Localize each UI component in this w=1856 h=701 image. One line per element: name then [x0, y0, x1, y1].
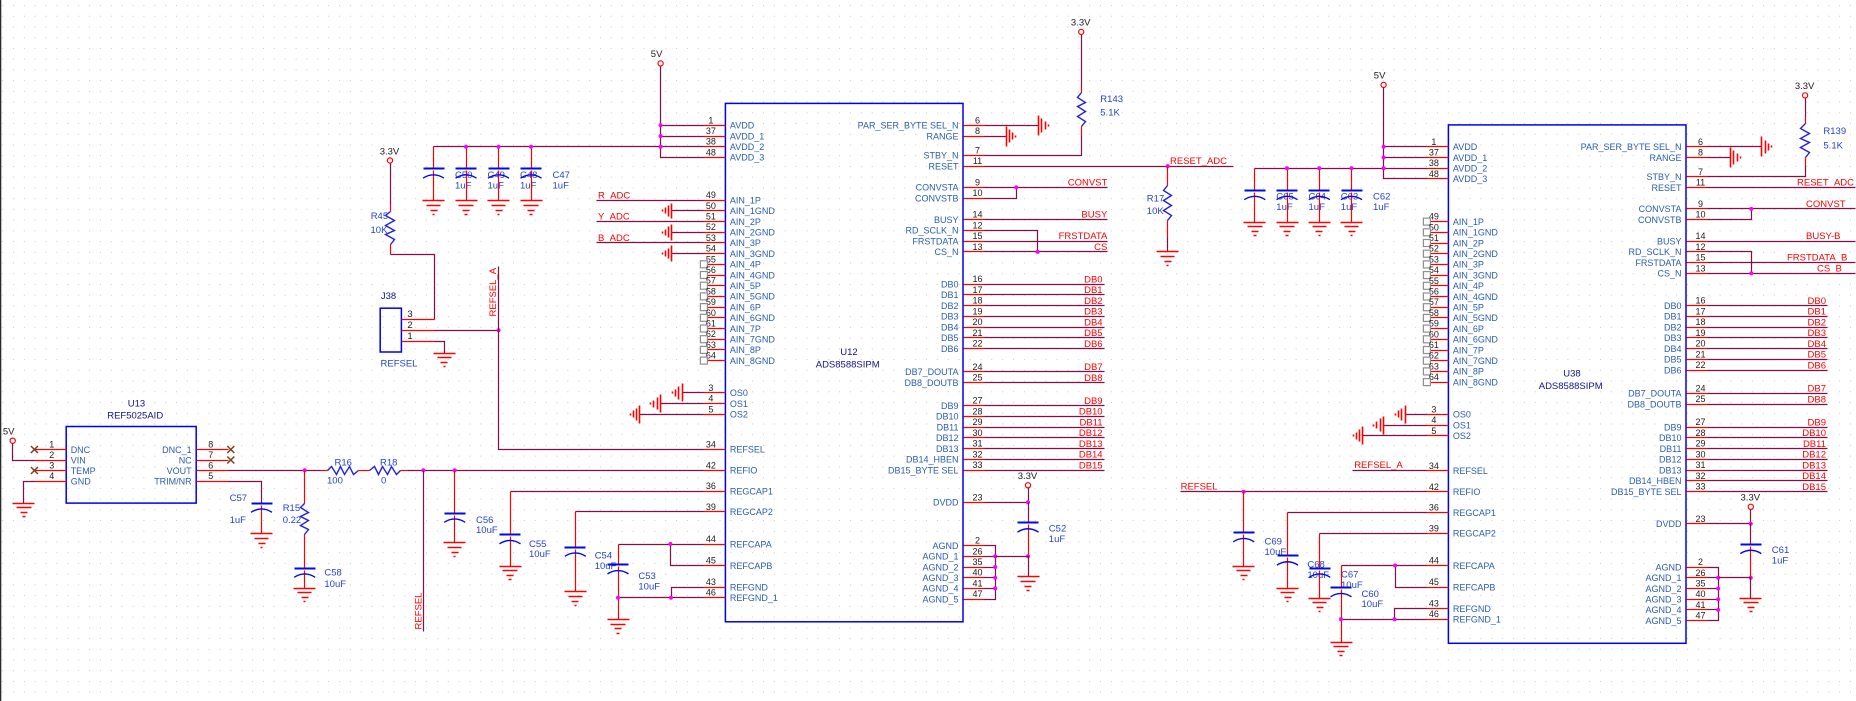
wire U38 CONVST net: [1708, 208, 1856, 210]
svg-text:AIN_5GND: AIN_5GND: [730, 292, 776, 302]
wire U38 DB11 net: [1708, 448, 1828, 450]
ground below C61: [1740, 599, 1762, 612]
wire 5V rail to U38 AVDD_3: [1384, 88, 1427, 179]
U12 pin 42 REFIO: [704, 460, 758, 475]
svg-text:16: 16: [1695, 296, 1705, 306]
svg-text:5: 5: [1431, 426, 1436, 436]
svg-text:DB5: DB5: [941, 333, 959, 343]
U12 pin 27 DB9: [941, 396, 985, 411]
U38 pin 41 AGND_4: [1645, 600, 1707, 615]
U12 pin 43 REFGND: [704, 577, 769, 592]
wire U38 CONVSTB join: [1708, 209, 1752, 220]
svg-text:AIN_1GND: AIN_1GND: [730, 206, 776, 216]
svg-text:34: 34: [706, 439, 716, 449]
U12 pin 53 AIN_3P: [704, 233, 761, 248]
svg-text:17: 17: [972, 285, 982, 295]
svg-text:REFCAPA: REFCAPA: [730, 539, 772, 549]
svg-text:AIN_7GND: AIN_7GND: [730, 335, 776, 345]
U38 pin 16 DB0: [1664, 296, 1708, 311]
svg-text:CONVSTA: CONVSTA: [1639, 204, 1682, 214]
U38 pin 34 REFSEL: [1427, 461, 1488, 476]
capacitor C56 10uF: [444, 471, 498, 543]
ground below C69: [1233, 567, 1255, 580]
svg-text:DB4: DB4: [1084, 317, 1102, 328]
svg-text:R45: R45: [371, 211, 388, 222]
wire U38 DB1 net: [1708, 316, 1828, 318]
svg-text:4: 4: [49, 471, 54, 481]
svg-text:21: 21: [972, 328, 982, 338]
svg-text:ADS8588SIPM: ADS8588SIPM: [1539, 381, 1603, 392]
svg-text:C69: C69: [1265, 537, 1282, 548]
U38 pin 9 CONVSTA: [1639, 199, 1708, 214]
svg-text:0.22: 0.22: [283, 515, 302, 526]
junction REFSEL branch: [421, 468, 425, 472]
wire U12 REGCAP2 to C54: [576, 511, 704, 513]
svg-text:10K: 10K: [371, 225, 389, 236]
wire 3.3V down to R143: [1081, 35, 1083, 86]
lead R143 bottom: [1081, 127, 1083, 136]
svg-text:REFGND_1: REFGND_1: [730, 593, 778, 603]
wire 5V to U13 VIN: [13, 444, 35, 461]
svg-text:AIN_1P: AIN_1P: [1453, 217, 1484, 227]
U38 pin 26 AGND_1: [1645, 568, 1707, 583]
svg-text:24: 24: [1695, 383, 1705, 393]
U38 pin 29 DB11: [1660, 439, 1708, 454]
U12 pin 23 DVDD: [933, 492, 985, 507]
U38 pin 54 AIN_3GND: [1423, 265, 1498, 280]
U38 pin 21 DB5: [1664, 349, 1708, 364]
wire REFSEL to U38 REFIO: [1181, 491, 1427, 493]
svg-text:AIN_7P: AIN_7P: [730, 324, 761, 334]
junction C69 branch: [1242, 490, 1246, 494]
svg-text:OS1: OS1: [730, 399, 748, 409]
wire U38 DB9 net: [1708, 427, 1828, 429]
svg-text:AIN_8GND: AIN_8GND: [730, 356, 776, 366]
svg-text:TRIM/NR: TRIM/NR: [154, 476, 192, 486]
svg-text:REFSEL: REFSEL: [730, 445, 765, 455]
svg-text:RESET_ADC: RESET_ADC: [1170, 156, 1227, 167]
ground (rotated) at U38 pin 6: [1762, 137, 1772, 157]
svg-text:33: 33: [1695, 482, 1705, 492]
svg-text:AIN_5GND: AIN_5GND: [1453, 313, 1499, 323]
U38 pin 31 DB13: [1659, 460, 1708, 475]
svg-text:46: 46: [706, 588, 716, 598]
svg-text:DB2: DB2: [941, 301, 959, 311]
capacitor C55 10uF: [500, 492, 551, 567]
U12 pin 16 DB0: [941, 274, 985, 289]
wire U38 DB3 net: [1708, 337, 1828, 339]
wire U12 REFCAPB up to REFCAPA: [671, 545, 704, 566]
svg-text:6: 6: [1698, 137, 1703, 147]
junction AGND bus: [993, 565, 997, 569]
svg-text:REFSEL: REFSEL: [414, 593, 425, 630]
wire DB6 net: [985, 348, 1105, 350]
U12 pin 15 FRSTDATA: [912, 231, 984, 246]
svg-text:TEMP: TEMP: [71, 466, 96, 476]
svg-text:REGCAP1: REGCAP1: [730, 486, 773, 496]
lead R45 top: [390, 164, 392, 205]
wire DB11 net: [985, 427, 1105, 429]
svg-text:RESET_ADC: RESET_ADC: [1797, 178, 1854, 189]
junction: [1382, 166, 1386, 170]
wire OS pin to ground: [1384, 425, 1427, 427]
svg-text:DB13: DB13: [936, 444, 959, 454]
U12 pin 51 AIN_2P: [704, 212, 761, 227]
U38 pin 59 AIN_6P: [1423, 319, 1484, 334]
wire U38 RESET_ADC net: [1708, 187, 1856, 189]
svg-text:C53: C53: [638, 571, 655, 582]
no-connect X U13 pin 7: [227, 457, 234, 464]
wire OS pin to ground: [683, 392, 704, 394]
lead R139 bottom: [1805, 158, 1807, 167]
power port 3.3V: [1071, 18, 1091, 35]
svg-text:R17: R17: [1147, 193, 1164, 204]
capacitor C57 1uF: [230, 493, 273, 533]
svg-text:C54: C54: [595, 550, 612, 561]
svg-text:AGND_1: AGND_1: [1645, 573, 1681, 583]
svg-text:DB14: DB14: [1079, 450, 1103, 461]
wire U38 DB7 net: [1708, 393, 1828, 395]
wire DB10 net: [985, 416, 1105, 418]
ground below C58: [294, 589, 316, 602]
wire DB4 net: [985, 327, 1105, 329]
svg-text:DB5: DB5: [1808, 350, 1826, 361]
svg-text:AVDD_2: AVDD_2: [1453, 164, 1487, 174]
svg-text:DB7_DOUTA: DB7_DOUTA: [1628, 389, 1681, 399]
svg-text:AIN_1P: AIN_1P: [730, 195, 761, 205]
U12 pin 2 AGND: [932, 536, 984, 551]
wire AGND pin join: [985, 556, 996, 558]
junction U38 pins 43/46: [1393, 617, 1397, 621]
svg-text:10uF: 10uF: [595, 561, 617, 572]
IC U38 ADS8588SIPM body: [1448, 125, 1686, 643]
U38 pin 20 DB4: [1664, 339, 1708, 354]
svg-text:12: 12: [1695, 242, 1705, 252]
lead R15 bottom: [304, 535, 306, 569]
U38 pin 42 REFIO: [1427, 482, 1481, 497]
U13 pin 5 TRIM/NR: [154, 471, 228, 486]
svg-text:AIN_5P: AIN_5P: [730, 281, 761, 291]
U12 pin 8 RANGE: [926, 126, 984, 141]
power port 3.3V: [1018, 471, 1038, 488]
wire decoupling bus to U12 AVDD_2: [434, 146, 704, 148]
svg-text:FRSTDATA: FRSTDATA: [912, 236, 958, 246]
svg-text:DB9: DB9: [941, 401, 959, 411]
junction VOUT/R15: [303, 468, 307, 472]
svg-text:10K: 10K: [1147, 206, 1165, 217]
svg-text:1: 1: [407, 331, 412, 342]
U38 pin 37 AVDD_1: [1427, 148, 1488, 163]
junction U38 AGND bus: [1716, 576, 1720, 580]
svg-text:DNC_1: DNC_1: [162, 445, 192, 455]
svg-text:AGND: AGND: [932, 541, 959, 551]
ground below C47: [521, 201, 543, 215]
junction U38 AGND bus: [1716, 608, 1720, 612]
lead R16-R18: [359, 470, 370, 472]
junction U38 REFGND net at C60: [1339, 617, 1343, 621]
wire DB3 net: [985, 316, 1105, 318]
U12 pin 11 RESET: [928, 156, 984, 171]
svg-text:GND: GND: [71, 476, 92, 486]
U12 pin 30 DB12: [936, 428, 985, 443]
U12 pin 59 AIN_6P: [700, 297, 761, 312]
svg-text:30: 30: [972, 428, 982, 438]
junction CS: [1036, 250, 1040, 254]
svg-text:23: 23: [1695, 514, 1705, 524]
ground (rotated) at pin 8: [1007, 127, 1016, 147]
wire CONVST net: [985, 187, 1108, 189]
svg-text:CS: CS: [1094, 242, 1107, 253]
svg-text:29: 29: [1695, 439, 1705, 449]
U38 pin 10 CONVSTB: [1638, 210, 1708, 225]
svg-text:AIN_7GND: AIN_7GND: [1453, 356, 1499, 366]
ground below C60: [1331, 643, 1353, 656]
wire U38 AGND bus to C61 bottom: [1719, 577, 1751, 579]
ground below C49: [456, 201, 478, 215]
U12 pin 25 DB8_DOUTB: [904, 373, 984, 388]
svg-text:REGCAP1: REGCAP1: [1453, 508, 1496, 518]
svg-text:1uF: 1uF: [1341, 202, 1358, 213]
svg-text:C55: C55: [529, 539, 546, 550]
svg-text:DB15: DB15: [1079, 460, 1103, 471]
lead R18 right: [401, 470, 408, 472]
svg-text:46: 46: [1429, 609, 1439, 619]
svg-text:DB15_BYTE SEL: DB15_BYTE SEL: [888, 465, 959, 475]
svg-text:26: 26: [1695, 568, 1705, 578]
U12 pin 41 AGND_4: [922, 578, 984, 593]
U12 pin 18 DB2: [941, 296, 985, 311]
resistor R143 5.1K: [1078, 93, 1124, 127]
svg-text:PAR_SER_BYTE SEL_N: PAR_SER_BYTE SEL_N: [858, 121, 959, 131]
wire net to U12 REFIO pin 42: [408, 470, 704, 472]
svg-text:CONVSTA: CONVSTA: [916, 183, 959, 193]
U38 pin 61 AIN_7P: [1423, 340, 1484, 355]
svg-text:DB6: DB6: [1664, 366, 1682, 376]
svg-text:3.3V: 3.3V: [1795, 81, 1815, 92]
U38 pin 47 AGND_5: [1645, 611, 1707, 626]
svg-text:10uF: 10uF: [476, 525, 498, 536]
ground below C48: [488, 201, 510, 215]
svg-text:3: 3: [708, 383, 713, 393]
svg-text:DB1: DB1: [1084, 285, 1102, 296]
svg-text:1uF: 1uF: [1772, 555, 1789, 566]
svg-text:10uF: 10uF: [638, 581, 660, 592]
svg-text:REFSEL_A: REFSEL_A: [1354, 460, 1403, 471]
wire DB9 net: [985, 405, 1105, 407]
wire U13 TRIM/NR to C57: [229, 482, 262, 504]
U38 pin 6 PAR_SER_BYTE SEL_N: [1581, 137, 1708, 152]
svg-text:DB12: DB12: [1802, 450, 1826, 461]
svg-text:52: 52: [706, 222, 716, 232]
svg-text:DB1: DB1: [1808, 307, 1826, 318]
svg-text:AIN_5P: AIN_5P: [1453, 303, 1484, 313]
svg-text:2: 2: [49, 450, 54, 460]
ground below C52: [1018, 577, 1040, 591]
U12 pin 57 AIN_5P: [700, 276, 761, 291]
U38 pin 27 DB9: [1664, 417, 1708, 432]
U12 pin 45 REFCAPB: [704, 556, 773, 571]
ground below C62: [1341, 223, 1363, 236]
svg-text:AIN_2P: AIN_2P: [730, 217, 761, 227]
svg-text:FRSTDATA_B: FRSTDATA_B: [1787, 253, 1847, 264]
U38 pin 60 AIN_6GND: [1423, 329, 1498, 344]
wire U38 REGCAP1 to C68: [1288, 512, 1427, 514]
svg-text:BUSY: BUSY: [934, 215, 959, 225]
svg-text:49: 49: [706, 190, 716, 200]
svg-text:37: 37: [706, 126, 716, 136]
wire U38 DB15 net: [1708, 491, 1828, 493]
svg-text:AIN_6P: AIN_6P: [730, 302, 761, 312]
U12 pin 55 AIN_4P: [700, 254, 761, 269]
svg-text:AIN_3P: AIN_3P: [1453, 260, 1484, 270]
svg-text:5.1K: 5.1K: [1100, 107, 1120, 118]
junction pins 44/45: [668, 542, 672, 546]
lead R15 top: [304, 471, 306, 504]
U12 pin 22 DB6: [941, 339, 985, 354]
wire U38 DB12 net: [1708, 459, 1828, 461]
svg-text:DB6: DB6: [941, 344, 959, 354]
svg-text:8: 8: [1698, 148, 1703, 158]
IC U12 ADS8588SIPM body: [725, 103, 963, 621]
svg-text:10: 10: [1695, 210, 1705, 220]
svg-text:3: 3: [1431, 404, 1436, 414]
svg-text:NC: NC: [179, 455, 192, 465]
svg-text:31: 31: [972, 439, 982, 449]
svg-text:4: 4: [1431, 415, 1436, 425]
wire REFSEL stub down: [423, 471, 425, 632]
no-connect X U13 pin 1: [31, 446, 38, 453]
U12 pin 37 AVDD_1: [704, 126, 765, 141]
capacitor C48 1uF: [488, 147, 537, 201]
junction R17: [1166, 164, 1170, 168]
svg-text:34: 34: [1429, 461, 1439, 471]
ground (rotated) at pin 6: [1039, 116, 1049, 136]
svg-text:OS0: OS0: [730, 388, 748, 398]
svg-text:BUSY: BUSY: [1081, 210, 1108, 221]
U12 pin 47 AGND_5: [922, 589, 984, 604]
svg-text:DB3: DB3: [1664, 333, 1682, 343]
svg-text:DB13: DB13: [1079, 439, 1103, 450]
svg-text:DB10: DB10: [1659, 433, 1682, 443]
U38 pin 51 AIN_2P: [1423, 233, 1484, 248]
junction: [659, 134, 663, 138]
svg-text:DB10: DB10: [1079, 407, 1103, 418]
U38 pin 4 OS1: [1427, 415, 1471, 430]
svg-text:44: 44: [706, 534, 716, 544]
U38 pin 43 REFGND: [1427, 599, 1492, 614]
svg-text:FRSTDATA: FRSTDATA: [1635, 258, 1681, 268]
wire U38 AGND pin join: [1708, 588, 1719, 590]
ground at U13 GND: [13, 504, 35, 517]
ground below C64: [1277, 223, 1299, 236]
svg-text:1uF: 1uF: [455, 180, 472, 191]
wire DVDD pin 23: [985, 502, 1029, 504]
capacitor C63 1uF: [1309, 169, 1359, 223]
U12 pin 39 REGCAP2: [704, 502, 773, 517]
svg-text:9: 9: [975, 177, 980, 187]
no-connect X U13 pin 8: [227, 446, 234, 453]
svg-text:30: 30: [1695, 449, 1705, 459]
svg-text:DB0: DB0: [1664, 301, 1682, 311]
svg-text:47: 47: [972, 589, 982, 599]
svg-text:3.3V: 3.3V: [1741, 493, 1761, 504]
wire U38 DB14 net: [1708, 480, 1828, 482]
lead R45 bottom: [390, 245, 392, 255]
svg-text:17: 17: [1695, 306, 1705, 316]
wire U38 RD_SCLK_N to CS_B: [1708, 252, 1752, 274]
svg-text:DB8_DOUTB: DB8_DOUTB: [1627, 400, 1681, 410]
U38 pin 30 DB12: [1659, 449, 1708, 464]
svg-text:OS2: OS2: [1453, 431, 1471, 441]
svg-text:R_ADC: R_ADC: [598, 190, 630, 201]
svg-text:R18: R18: [380, 457, 397, 468]
U38 pin 46 REFGND_1: [1427, 609, 1501, 624]
wire AGND bus to C52 bottom: [996, 556, 1029, 558]
svg-text:51: 51: [706, 212, 716, 222]
svg-text:DB5: DB5: [1084, 328, 1102, 339]
power port 3.3V: [1795, 81, 1815, 98]
svg-text:48: 48: [706, 147, 716, 157]
U12 pin 19 DB3: [941, 306, 985, 321]
svg-text:45: 45: [1429, 577, 1439, 587]
wire to U38 AVDD_1: [1384, 157, 1427, 159]
ground (rotated) at AIN gnd pin: [663, 204, 672, 219]
svg-text:25: 25: [1695, 394, 1705, 404]
svg-text:7: 7: [1698, 167, 1703, 177]
wire OS pin to ground: [1406, 414, 1427, 416]
U12 pin 12 RD_SCLK_N: [905, 220, 984, 235]
wire AIN GND pin to ground: [672, 210, 704, 212]
svg-text:DB2: DB2: [1084, 296, 1102, 307]
wire DB15 net: [985, 470, 1105, 472]
svg-text:DB1: DB1: [1664, 312, 1682, 322]
U13 pin 3 TEMP: [35, 461, 96, 476]
svg-text:AIN_7P: AIN_7P: [1453, 345, 1484, 355]
svg-text:DB10: DB10: [1802, 428, 1826, 439]
wire R139 to U38 STBY_N: [1708, 167, 1806, 177]
junction AGND/C52: [1026, 554, 1030, 558]
U38 pin 33 DB15_BYTE SEL: [1611, 482, 1708, 497]
svg-text:AVDD: AVDD: [730, 121, 755, 131]
U38 pin 12 RD_SCLK_N: [1628, 242, 1707, 257]
U38 pin 48 AVDD_3: [1427, 169, 1488, 184]
svg-text:100: 100: [327, 475, 343, 486]
svg-text:DB13: DB13: [1802, 460, 1826, 471]
no-connect X U13 pin 3: [31, 467, 38, 474]
U38 pin 18 DB2: [1664, 317, 1708, 332]
wire REFSEL_A to U12 REFSEL: [499, 267, 704, 450]
junction AGND bus: [993, 586, 997, 590]
ground below C54: [565, 592, 587, 606]
svg-text:39: 39: [706, 502, 716, 512]
capacitor C62 1uF: [1341, 169, 1390, 223]
wire U38 BUSY-B net: [1708, 241, 1856, 243]
svg-text:10uF: 10uF: [1341, 580, 1363, 591]
svg-text:AGND_3: AGND_3: [1645, 595, 1681, 605]
svg-text:CONVSTB: CONVSTB: [1638, 215, 1682, 225]
U12 pin 56 AIN_4GND: [700, 265, 775, 280]
svg-text:DB10: DB10: [936, 412, 959, 422]
ground below C68: [1277, 589, 1299, 602]
U12 pin 61 AIN_7P: [700, 319, 761, 334]
svg-text:1uF: 1uF: [230, 515, 247, 526]
ground (rotated) at AIN gnd pin: [663, 225, 672, 241]
U12 pin 38 AVDD_2: [704, 137, 765, 152]
svg-text:C60: C60: [1362, 589, 1379, 600]
svg-text:5V: 5V: [651, 49, 663, 60]
U12 pin 34 REFSEL: [704, 439, 765, 454]
svg-text:DB4: DB4: [1664, 344, 1682, 354]
